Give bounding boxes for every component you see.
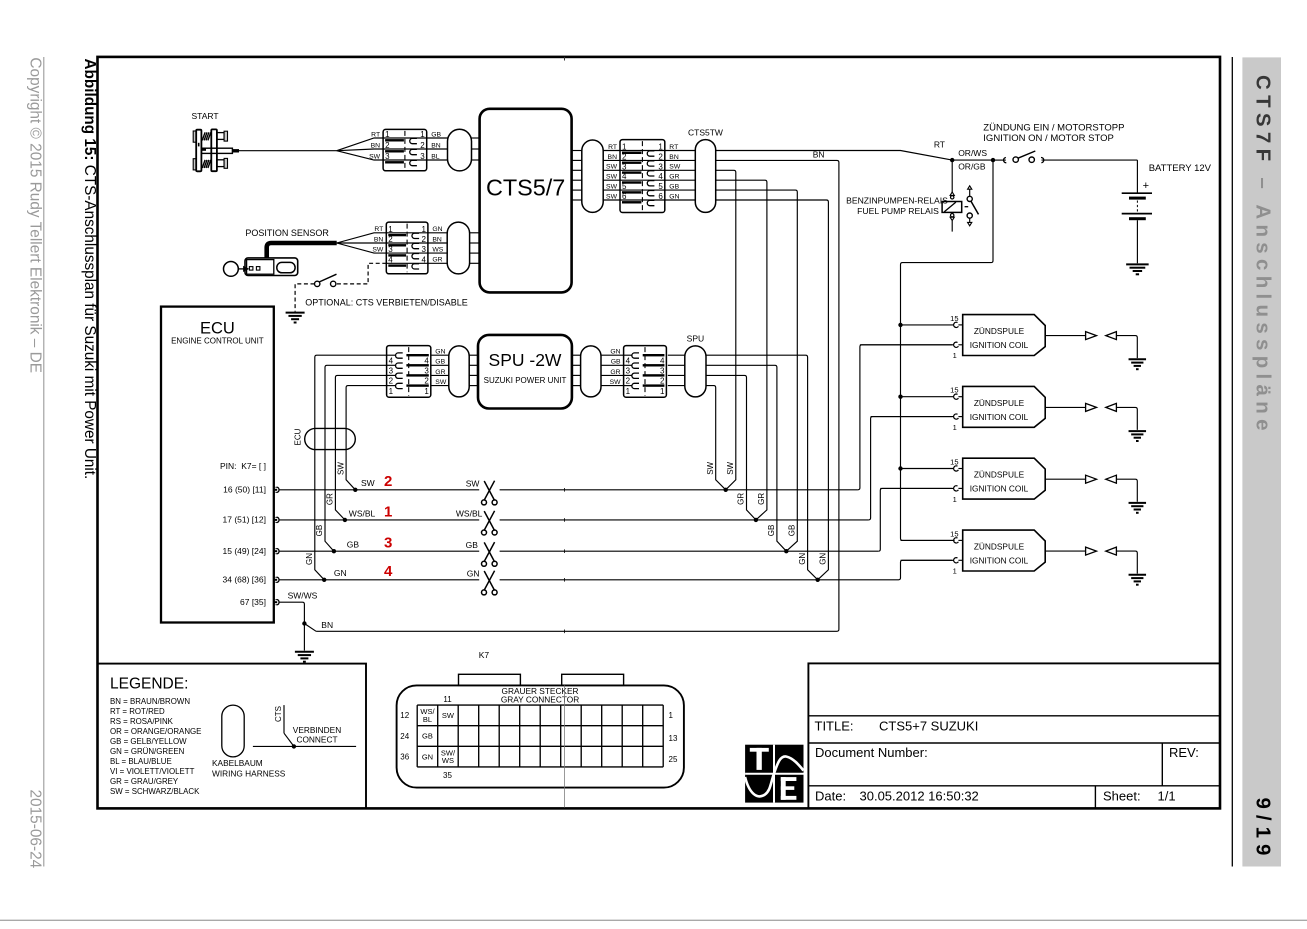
svg-text:SW: SW xyxy=(336,462,345,475)
svg-text:OR = ORANGE/ORANGE: OR = ORANGE/ORANGE xyxy=(110,727,201,736)
svg-text:GR: GR xyxy=(435,369,445,376)
svg-text:SW: SW xyxy=(442,711,455,720)
svg-text:GB: GB xyxy=(788,525,797,537)
svg-text:CTS5/7: CTS5/7 xyxy=(486,175,565,201)
svg-text:4: 4 xyxy=(384,563,393,580)
svg-text:RT: RT xyxy=(669,144,678,151)
svg-text:RT = ROT/RED: RT = ROT/RED xyxy=(110,707,165,716)
svg-text:2: 2 xyxy=(389,377,394,386)
svg-text:WIRING HARNESS: WIRING HARNESS xyxy=(212,768,286,778)
svg-text:3: 3 xyxy=(420,152,425,161)
svg-text:5: 5 xyxy=(622,182,627,191)
svg-text:LEGENDE:: LEGENDE: xyxy=(110,676,188,693)
svg-text:15: 15 xyxy=(950,529,958,538)
svg-text:3: 3 xyxy=(622,162,627,171)
svg-text:SW: SW xyxy=(706,461,715,474)
svg-text:BN: BN xyxy=(608,154,618,161)
svg-text:WS/BL: WS/BL xyxy=(456,509,483,519)
svg-text:1: 1 xyxy=(424,387,429,396)
svg-text:1: 1 xyxy=(669,711,674,720)
svg-text:BN: BN xyxy=(432,236,442,243)
svg-text:BN: BN xyxy=(431,142,441,149)
svg-text:2: 2 xyxy=(622,152,627,161)
svg-text:GN: GN xyxy=(432,226,442,233)
svg-text:GR: GR xyxy=(757,493,766,505)
svg-text:1: 1 xyxy=(421,225,426,234)
svg-text:12: 12 xyxy=(400,711,409,720)
svg-text:SW: SW xyxy=(606,184,618,191)
svg-text:4: 4 xyxy=(658,172,663,181)
svg-text:1: 1 xyxy=(953,495,957,504)
svg-text:GR: GR xyxy=(669,174,679,181)
svg-text:IGNITION COIL: IGNITION COIL xyxy=(970,412,1029,422)
svg-text:GB: GB xyxy=(611,359,621,366)
svg-text:15 (49) [24]: 15 (49) [24] xyxy=(223,546,266,556)
svg-text:SW: SW xyxy=(369,153,381,160)
svg-text:GN: GN xyxy=(305,553,314,565)
svg-text:4: 4 xyxy=(388,255,393,264)
svg-text:SW: SW xyxy=(606,174,618,181)
svg-text:CTS: CTS xyxy=(274,706,283,722)
svg-text:GB: GB xyxy=(422,732,433,741)
svg-text:BN = BRAUN/BROWN: BN = BRAUN/BROWN xyxy=(110,697,190,706)
svg-text:2015-06-24: 2015-06-24 xyxy=(27,790,44,869)
svg-text:GB: GB xyxy=(669,184,679,191)
svg-text:OR/WS: OR/WS xyxy=(958,148,987,158)
svg-text:CTS7F – Anschlusspläne: CTS7F – Anschlusspläne xyxy=(1252,75,1275,436)
svg-text:16 (50) [11]: 16 (50) [11] xyxy=(223,485,266,495)
svg-text:GR: GR xyxy=(432,257,442,264)
svg-text:3: 3 xyxy=(385,152,390,161)
svg-text:OPTIONAL: CTS VERBIETEN/DISABL: OPTIONAL: CTS VERBIETEN/DISABLE xyxy=(305,297,468,307)
svg-text:1: 1 xyxy=(388,225,393,234)
svg-text:2: 2 xyxy=(384,473,392,490)
svg-text:WS: WS xyxy=(432,247,443,254)
svg-text:11: 11 xyxy=(443,695,452,704)
svg-text:15: 15 xyxy=(950,457,958,466)
svg-text:BN: BN xyxy=(669,154,679,161)
svg-text:IGNITION COIL: IGNITION COIL xyxy=(970,340,1029,350)
svg-text:SW/WS: SW/WS xyxy=(288,591,318,601)
svg-text:GB: GB xyxy=(431,131,441,138)
svg-text:GN: GN xyxy=(422,752,433,761)
svg-text:3: 3 xyxy=(626,367,631,376)
svg-text:3: 3 xyxy=(384,535,392,552)
svg-text:4: 4 xyxy=(421,255,426,264)
svg-text:2: 2 xyxy=(658,152,663,161)
svg-text:2: 2 xyxy=(660,377,665,386)
svg-text:1: 1 xyxy=(384,503,392,520)
svg-text:GN: GN xyxy=(435,349,445,356)
svg-text:ZÜNDSPULE: ZÜNDSPULE xyxy=(974,470,1025,480)
svg-text:+: + xyxy=(1143,180,1149,192)
svg-text:9/19: 9/19 xyxy=(1252,798,1275,862)
svg-text:6: 6 xyxy=(622,192,627,201)
svg-text:BN: BN xyxy=(374,236,384,243)
svg-text:3: 3 xyxy=(389,367,394,376)
svg-text:ZÜNDSPULE: ZÜNDSPULE xyxy=(974,326,1025,336)
svg-text:15: 15 xyxy=(950,386,958,395)
svg-text:13: 13 xyxy=(669,734,678,743)
svg-text:IGNITION COIL: IGNITION COIL xyxy=(970,556,1029,566)
svg-text:GN: GN xyxy=(798,553,807,565)
svg-text:67 [35]: 67 [35] xyxy=(240,597,266,607)
svg-text:BATTERY 12V: BATTERY 12V xyxy=(1149,163,1212,174)
svg-text:30.05.2012 16:50:32: 30.05.2012 16:50:32 xyxy=(860,789,979,804)
svg-text:1: 1 xyxy=(385,130,390,139)
svg-text:GN = GRÜN/GREEN: GN = GRÜN/GREEN xyxy=(110,747,185,756)
svg-text:GB: GB xyxy=(767,525,776,537)
svg-text:BL = BLAU/BLUE: BL = BLAU/BLUE xyxy=(110,757,172,766)
svg-text:WS/BL: WS/BL xyxy=(349,508,376,518)
svg-text:SW: SW xyxy=(606,164,618,171)
svg-text:GB = GELB/YELLOW: GB = GELB/YELLOW xyxy=(110,737,187,746)
svg-text:1: 1 xyxy=(953,351,957,360)
svg-text:START: START xyxy=(192,111,219,121)
svg-text:SW: SW xyxy=(361,478,375,488)
svg-text:SPU -2W: SPU -2W xyxy=(489,350,562,370)
svg-text:BL: BL xyxy=(423,715,432,724)
svg-text:SW: SW xyxy=(372,247,384,254)
svg-text:5: 5 xyxy=(658,182,663,191)
svg-text:1: 1 xyxy=(420,130,425,139)
svg-text:4: 4 xyxy=(389,357,394,366)
svg-text:SW: SW xyxy=(606,193,618,200)
svg-text:GN: GN xyxy=(669,193,679,200)
svg-text:GR: GR xyxy=(610,369,620,376)
svg-text:BENZINPUMPEN-RELAIS: BENZINPUMPEN-RELAIS xyxy=(846,196,948,206)
svg-text:SW: SW xyxy=(726,461,735,474)
svg-text:REV:: REV: xyxy=(1169,745,1199,760)
svg-text:GR: GR xyxy=(737,493,746,505)
svg-text:Date:: Date: xyxy=(815,789,846,804)
svg-text:SW = SCHWARZ/BLACK: SW = SCHWARZ/BLACK xyxy=(110,787,200,796)
svg-text:3: 3 xyxy=(388,245,393,254)
svg-text:1: 1 xyxy=(953,567,957,576)
svg-text:Document Number:: Document Number: xyxy=(815,745,928,760)
svg-text:GB: GB xyxy=(315,525,324,537)
svg-text:ENGINE CONTROL UNIT: ENGINE CONTROL UNIT xyxy=(171,337,264,346)
svg-text:GN: GN xyxy=(610,349,620,356)
svg-text:RT: RT xyxy=(934,140,945,150)
svg-text:1: 1 xyxy=(626,387,631,396)
svg-text:2: 2 xyxy=(424,377,429,386)
svg-text:15: 15 xyxy=(950,314,958,323)
svg-text:SW: SW xyxy=(610,379,622,386)
svg-text:Copyright © 2015 Rudy Tellert: Copyright © 2015 Rudy Tellert Elektronik… xyxy=(27,57,44,373)
svg-text:3: 3 xyxy=(421,245,426,254)
svg-text:GR: GR xyxy=(326,493,335,505)
svg-text:WS: WS xyxy=(442,756,454,765)
svg-text:IGNITION COIL: IGNITION COIL xyxy=(970,484,1029,494)
svg-text:VI = VIOLETT/VIOLETT: VI = VIOLETT/VIOLETT xyxy=(110,767,195,776)
svg-text:4: 4 xyxy=(626,357,631,366)
svg-text:GN: GN xyxy=(334,568,347,578)
svg-text:IGNITION ON / MOTOR STOP: IGNITION ON / MOTOR STOP xyxy=(983,133,1114,144)
svg-text:1: 1 xyxy=(389,387,394,396)
svg-text:BN: BN xyxy=(371,142,381,149)
svg-text:ZÜNDUNG EIN / MOTORSTOPP: ZÜNDUNG EIN / MOTORSTOPP xyxy=(983,123,1124,134)
svg-text:GB: GB xyxy=(466,540,479,550)
svg-text:POSITION SENSOR: POSITION SENSOR xyxy=(245,228,329,238)
svg-text:24: 24 xyxy=(400,732,409,741)
svg-text:2: 2 xyxy=(626,377,631,386)
svg-text:GB: GB xyxy=(347,540,360,550)
svg-text:34 (68) [36]: 34 (68) [36] xyxy=(223,575,266,585)
svg-text:17 (51) [12]: 17 (51) [12] xyxy=(223,515,266,525)
svg-text:SUZUKI POWER UNIT: SUZUKI POWER UNIT xyxy=(484,376,567,385)
svg-text:1: 1 xyxy=(622,143,627,152)
svg-text:6: 6 xyxy=(658,192,663,201)
svg-text:2: 2 xyxy=(420,141,425,150)
svg-text:SW: SW xyxy=(466,478,480,488)
svg-text:3: 3 xyxy=(658,162,663,171)
svg-text:RT: RT xyxy=(608,144,617,151)
svg-text:ZÜNDSPULE: ZÜNDSPULE xyxy=(974,398,1025,408)
svg-text:RT: RT xyxy=(371,131,380,138)
svg-text:SW: SW xyxy=(669,164,681,171)
svg-text:GN: GN xyxy=(819,553,828,565)
svg-text:GB: GB xyxy=(435,359,445,366)
svg-text:ECU: ECU xyxy=(200,320,235,338)
svg-text:GR = GRAU/GREY: GR = GRAU/GREY xyxy=(110,777,179,786)
svg-text:ZÜNDSPULE: ZÜNDSPULE xyxy=(974,542,1025,552)
svg-text:K7: K7 xyxy=(479,650,490,660)
svg-text:1: 1 xyxy=(658,143,663,152)
svg-text:CTS5TW: CTS5TW xyxy=(688,128,723,138)
svg-text:KABELBAUM: KABELBAUM xyxy=(212,758,263,768)
svg-text:PIN: K7= [ ]: PIN: K7= [ ] xyxy=(220,461,266,471)
svg-text:CONNECT: CONNECT xyxy=(296,734,337,744)
svg-text:1: 1 xyxy=(953,423,957,432)
svg-text:Sheet:: Sheet: xyxy=(1103,789,1141,804)
svg-text:1: 1 xyxy=(660,387,665,396)
svg-text:GRAY CONNECTOR: GRAY CONNECTOR xyxy=(501,694,579,704)
svg-text:Abbildung 15: CTS-Anschlusspla: Abbildung 15: CTS-Anschlussplan für Suzu… xyxy=(81,59,98,480)
svg-text:BN: BN xyxy=(321,620,333,630)
svg-text:FUEL PUMP RELAIS: FUEL PUMP RELAIS xyxy=(857,206,939,216)
svg-text:2: 2 xyxy=(385,141,390,150)
svg-text:OR/GB: OR/GB xyxy=(958,162,986,172)
svg-text:TITLE:: TITLE: xyxy=(815,719,854,734)
svg-text:36: 36 xyxy=(400,752,409,761)
svg-text:GN: GN xyxy=(467,568,480,578)
svg-text:4: 4 xyxy=(622,172,627,181)
svg-text:SPU: SPU xyxy=(687,334,704,344)
svg-text:RS = ROSA/PINK: RS = ROSA/PINK xyxy=(110,717,174,726)
svg-text:2: 2 xyxy=(421,235,426,244)
svg-text:BL: BL xyxy=(431,153,440,160)
svg-text:RT: RT xyxy=(374,226,383,233)
svg-text:2: 2 xyxy=(388,235,393,244)
svg-text:35: 35 xyxy=(443,771,452,780)
svg-text:1/1: 1/1 xyxy=(1158,789,1176,804)
svg-text:ECU: ECU xyxy=(293,428,302,445)
svg-text:SW: SW xyxy=(435,379,447,386)
svg-text:CTS5+7 SUZUKI: CTS5+7 SUZUKI xyxy=(879,719,978,734)
svg-text:25: 25 xyxy=(669,755,678,764)
